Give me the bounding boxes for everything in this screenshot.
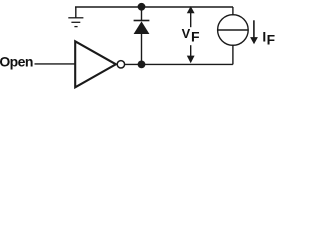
label VF xyxy=(182,26,200,45)
node junction dot bottom xyxy=(138,61,146,69)
op-amp U1 inverter triangle xyxy=(75,41,116,87)
node junction dot top xyxy=(138,3,146,11)
wire bottom rail node to current source xyxy=(142,63,233,65)
svg-text:V: V xyxy=(182,26,191,41)
ground xyxy=(68,7,83,27)
wire top rail ground to current source xyxy=(75,6,233,8)
current source I1 xyxy=(218,15,249,46)
svg-text:F: F xyxy=(267,32,275,47)
svg-text:Open: Open xyxy=(0,54,33,70)
svg-text:F: F xyxy=(191,29,200,45)
inverter output bubble xyxy=(117,61,124,68)
diode D1 xyxy=(134,7,150,64)
wire input from Open to inverter xyxy=(35,63,76,65)
label IF xyxy=(262,30,275,48)
wire output bubble to node xyxy=(125,63,142,65)
IF current arrow xyxy=(250,20,258,44)
wire drop top rail to current source top xyxy=(232,7,234,16)
wire riser current source bottom xyxy=(232,45,234,65)
VF voltage arrows xyxy=(187,6,195,63)
